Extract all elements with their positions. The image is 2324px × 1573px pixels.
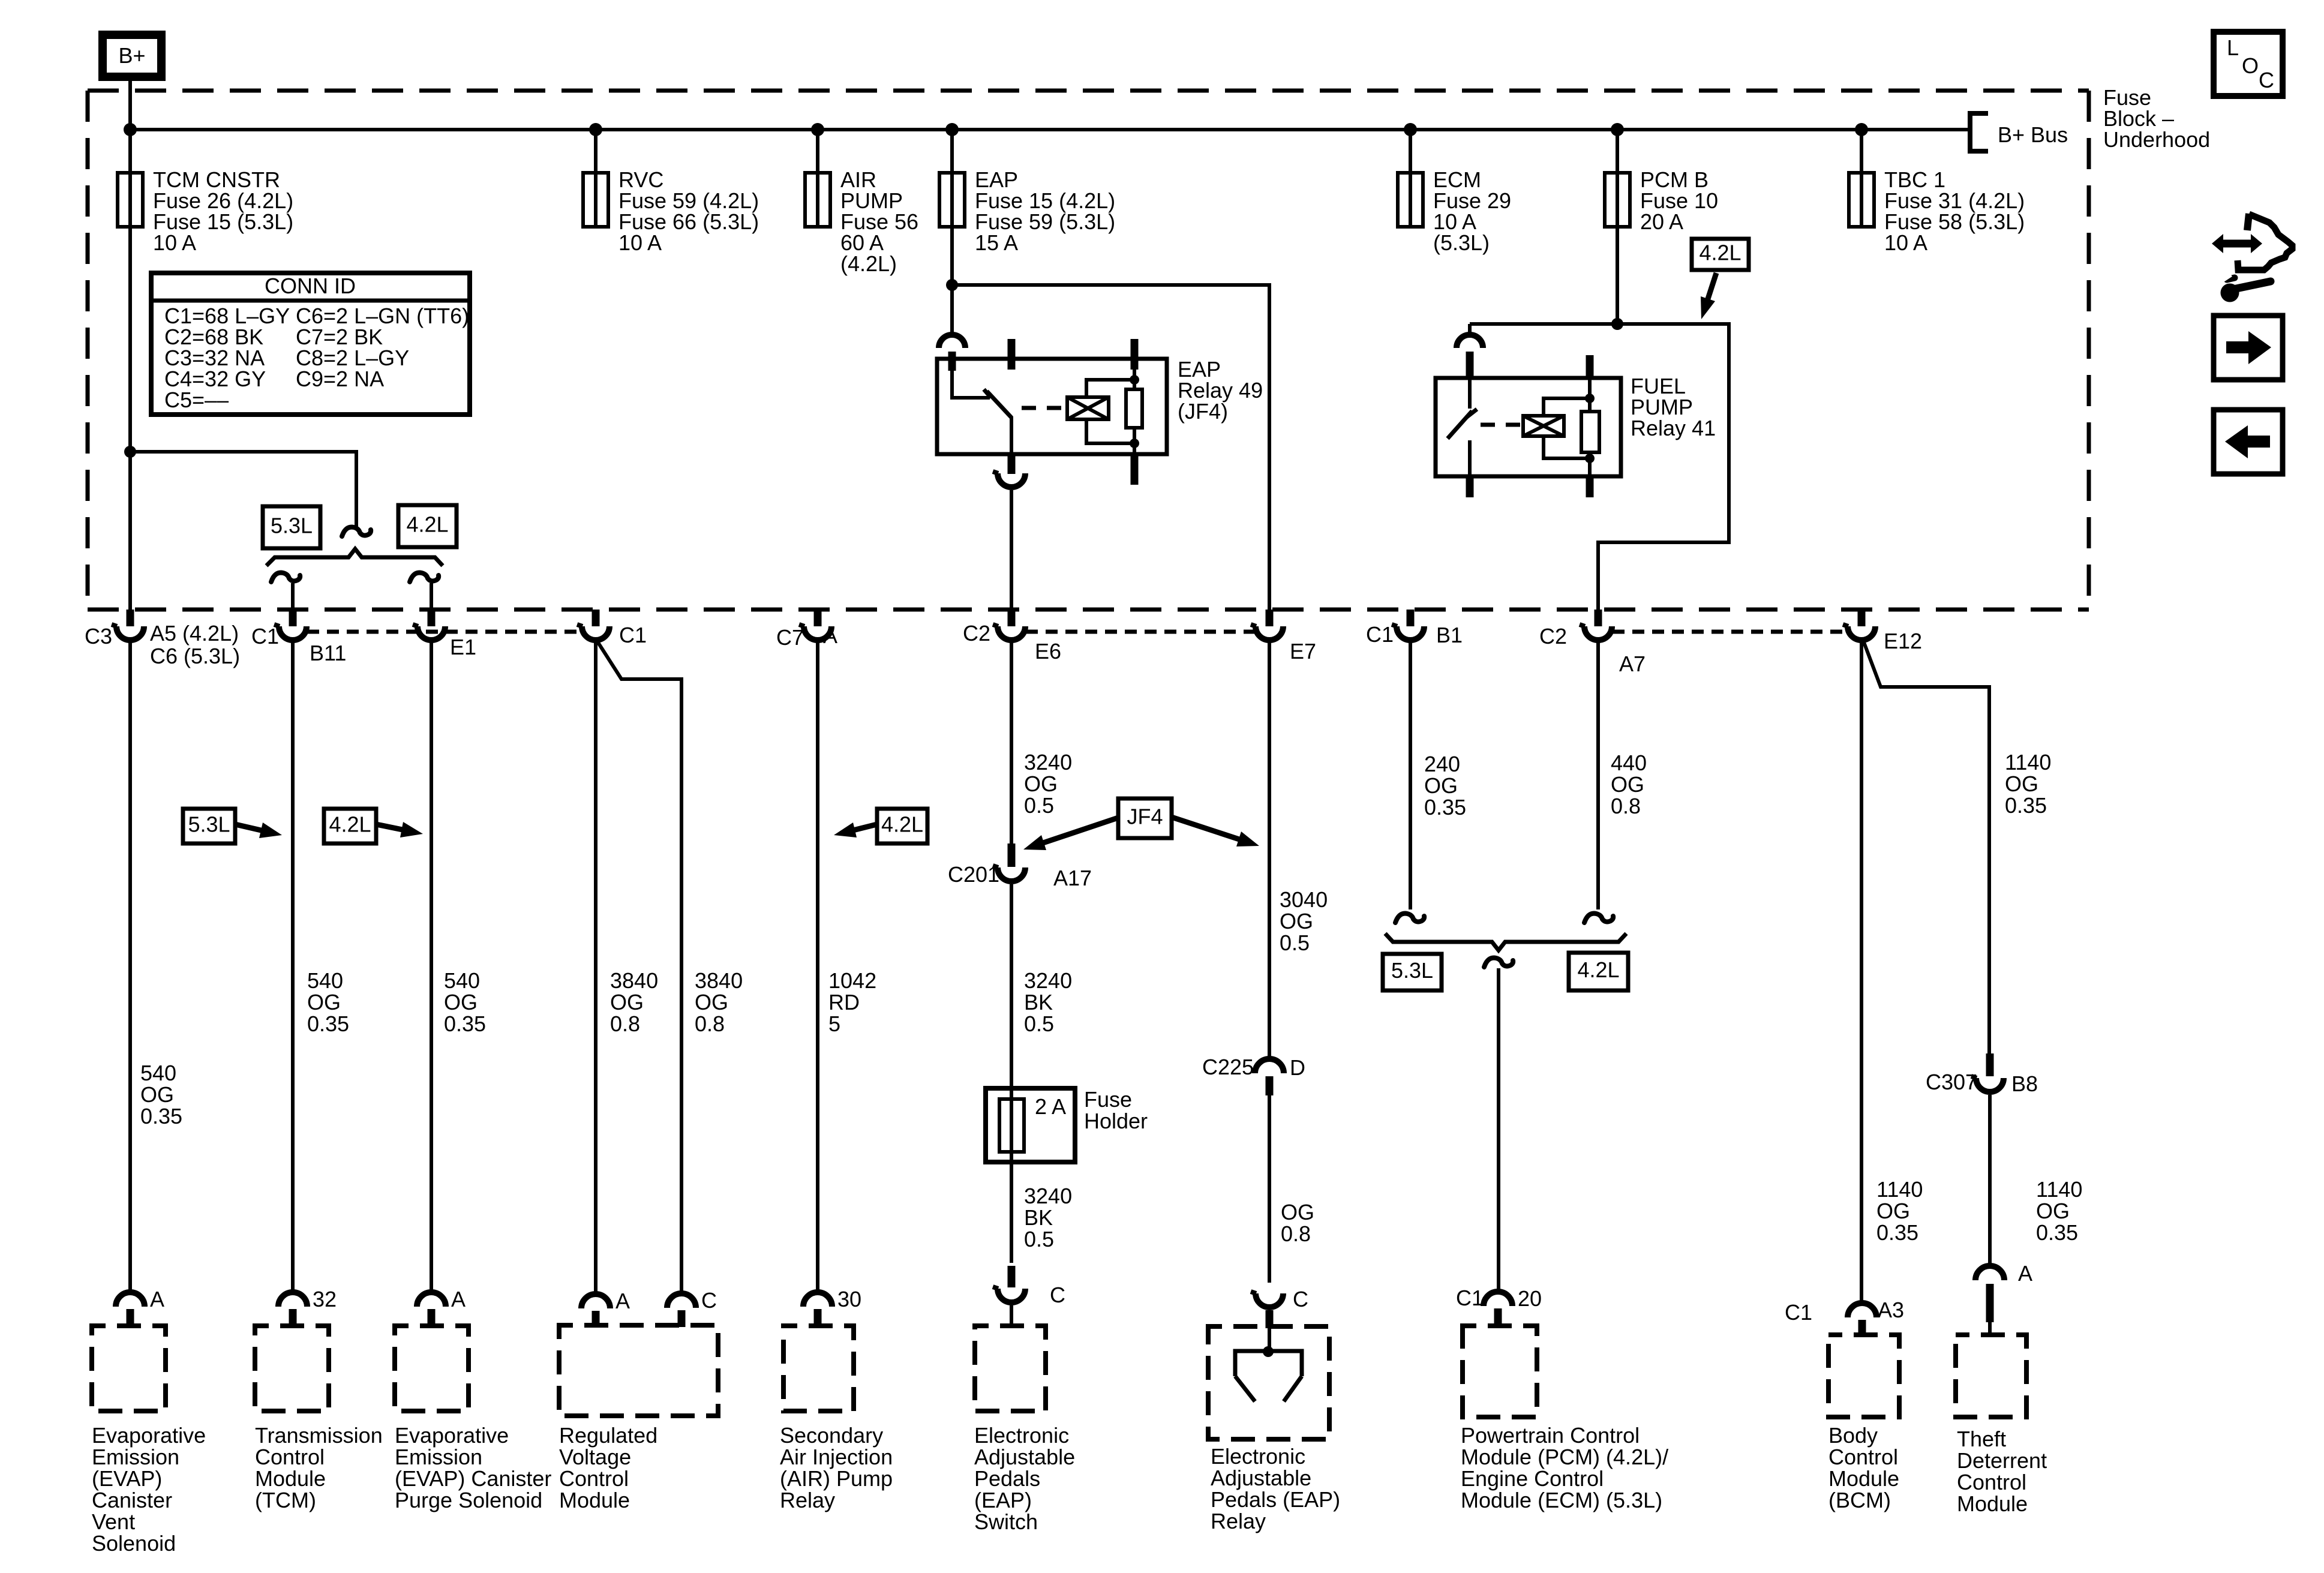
EAP relay coil wiring	[1086, 380, 1134, 443]
EAP relay pin 87 bar	[1008, 453, 1016, 474]
fuel relay coil wiring	[1544, 398, 1590, 458]
svg-text:Underhood: Underhood	[2103, 127, 2210, 152]
module BCM box	[1828, 1335, 1899, 1417]
svg-text:0.35: 0.35	[1424, 795, 1466, 819]
junction EAP coil bottom	[1130, 439, 1139, 448]
module theft deterrent box	[1956, 1335, 2026, 1417]
junction fuel coil top	[1585, 394, 1595, 403]
B+ Bus bar symbol	[1970, 113, 1988, 151]
dotted connector line segment 1	[307, 630, 581, 634]
connector pin A RVC	[581, 1294, 610, 1328]
fuel relay coil	[1523, 416, 1564, 436]
svg-text:0.5: 0.5	[1024, 1227, 1054, 1251]
label wire 240 OG 0.35	[1424, 752, 1466, 819]
svg-text:C: C	[1293, 1287, 1308, 1311]
svg-text:0.8: 0.8	[1611, 794, 1641, 818]
svg-text:B+ Bus: B+ Bus	[1998, 122, 2068, 147]
label wire 3040 OG 0.5	[1280, 887, 1328, 955]
wire TCM module drop	[291, 642, 295, 1292]
svg-text:A5 (4.2L): A5 (4.2L)	[150, 621, 239, 646]
svg-text:Transmission: Transmission	[255, 1423, 383, 1448]
svg-text:C307: C307	[1926, 1070, 1977, 1094]
svg-text:C: C	[1050, 1283, 1065, 1307]
svg-text:540: 540	[444, 968, 480, 993]
svg-text:3240: 3240	[1024, 1184, 1072, 1208]
connector pin 30 AIR relay	[803, 1292, 832, 1326]
svg-text:OG: OG	[1424, 773, 1458, 798]
fuel relay pin 85 bar	[1586, 476, 1594, 497]
module PCM/ECM box	[1463, 1326, 1537, 1417]
label box 4.2L arrow (AIR)	[834, 809, 927, 843]
svg-text:OG: OG	[1024, 772, 1058, 796]
label Electronic Adjustable Pedals (EAP) Switch	[974, 1423, 1075, 1534]
connector EAP relay output cup	[998, 473, 1025, 487]
fuse EAP Fuse 15/59	[939, 173, 965, 227]
icon arrow right box	[2214, 316, 2283, 380]
wire TCM branch L	[128, 227, 132, 610]
svg-text:A7: A7	[1619, 652, 1646, 676]
fuse ECM Fuse 29	[1398, 173, 1423, 227]
svg-text:Module: Module	[1828, 1466, 1899, 1491]
wire ECM Fuse 29 drop	[1409, 130, 1412, 173]
svg-text:(BCM): (BCM)	[1828, 1488, 1891, 1512]
svg-text:0.8: 0.8	[610, 1011, 640, 1036]
svg-text:0.35: 0.35	[140, 1104, 182, 1128]
svg-text:Emission: Emission	[395, 1445, 482, 1469]
connector pin 20 PCM	[1484, 1292, 1512, 1325]
wire C to EAP switch box	[1010, 1305, 1013, 1326]
brace PCM/ECM merge	[1385, 933, 1626, 950]
svg-text:A: A	[451, 1287, 466, 1311]
bus B+ horizontal	[130, 128, 1968, 131]
connector C1 B11	[279, 626, 307, 640]
connector C2 A7 tick	[1595, 610, 1602, 626]
svg-text:20: 20	[1518, 1286, 1542, 1311]
svg-text:C: C	[2259, 68, 2274, 92]
label wire 3840 OG 0.8 (A)	[610, 968, 658, 1036]
squiggle ECM wire end	[1395, 914, 1424, 923]
label box JF4 with arrows	[1023, 798, 1259, 850]
svg-text:C: C	[701, 1288, 717, 1313]
wire C225 to EAP relay	[1268, 1095, 1271, 1283]
svg-text:3240: 3240	[1024, 750, 1072, 775]
svg-text:A: A	[150, 1287, 164, 1311]
svg-text:4.2L: 4.2L	[1699, 241, 1741, 265]
wire TBC drop to BCM	[1860, 642, 1863, 1303]
connector C1 B1	[1397, 626, 1424, 640]
connector pin A EVAP purge	[417, 1292, 446, 1326]
svg-text:B+: B+	[118, 43, 145, 68]
svg-text:Control: Control	[255, 1445, 325, 1469]
svg-text:Body: Body	[1828, 1423, 1878, 1448]
wire EVAP vent drop	[128, 642, 132, 1292]
label Fuse Block - Underhood	[2103, 85, 2210, 152]
connector C1 B11 tick	[289, 610, 297, 626]
connector C307 tick	[1986, 1053, 1994, 1076]
label Theft Deterrent Control Module	[1957, 1427, 2047, 1516]
svg-text:A: A	[2018, 1261, 2032, 1286]
wire RVC pin A drop	[594, 642, 597, 1294]
label Transmission Control Module (TCM)	[255, 1423, 383, 1512]
svg-text:(EVAP): (EVAP)	[92, 1466, 162, 1491]
connector C3 tick	[127, 610, 134, 626]
svg-text:OG: OG	[444, 990, 478, 1014]
connector C1 B1 tick	[1407, 610, 1415, 626]
svg-text:Canister: Canister	[92, 1488, 172, 1512]
wire TCM CNSTR Fuse 26/15 drop	[128, 130, 132, 173]
svg-text:0.35: 0.35	[2036, 1220, 2078, 1245]
dotted connector line segment 2	[1026, 630, 1255, 634]
svg-text:Solenoid: Solenoid	[92, 1531, 176, 1556]
wire C into EAP relay box	[1266, 1310, 1274, 1328]
svg-text:30: 30	[837, 1287, 861, 1311]
module EAP switch box	[975, 1326, 1046, 1411]
label box 5.3L arrow	[183, 809, 282, 843]
label Regulated Voltage Control Module	[559, 1423, 657, 1512]
connector C cup (EAP switch)	[998, 1289, 1025, 1302]
svg-text:Electronic: Electronic	[974, 1423, 1069, 1448]
svg-text:C1: C1	[1785, 1300, 1812, 1325]
EAP relay pin 87a bar	[1008, 339, 1016, 370]
svg-text:0.5: 0.5	[1024, 1011, 1054, 1036]
svg-text:1140: 1140	[2036, 1177, 2082, 1202]
icon vehicle with wrench	[2212, 214, 2292, 302]
label box 5.3L upper	[263, 506, 320, 548]
svg-text:C6 (5.3L): C6 (5.3L)	[150, 644, 240, 668]
connector EAP relay pin30 dome	[939, 335, 965, 348]
EAP relay pin 85 bar	[1131, 453, 1139, 485]
svg-text:OG: OG	[140, 1082, 174, 1107]
wire B+ to bus	[128, 81, 132, 130]
fuse holder	[986, 1088, 1075, 1162]
svg-text:5.3L: 5.3L	[271, 514, 313, 538]
junction bus PCM	[1611, 123, 1624, 136]
label Fuse Holder	[1084, 1087, 1148, 1133]
svg-text:C2: C2	[963, 621, 990, 646]
wire PCM B fuse to junction	[1616, 227, 1619, 324]
connector C1 RVC tick	[592, 610, 600, 626]
wire A7 drop	[1596, 642, 1600, 909]
svg-text:Secondary: Secondary	[780, 1423, 883, 1448]
connector E7	[1256, 626, 1283, 640]
svg-text:4.2L: 4.2L	[406, 512, 448, 537]
EAP relay dashed link	[1022, 406, 1065, 410]
wire EAP to E7 branch	[952, 285, 1269, 610]
svg-text:(5.3L): (5.3L)	[1433, 230, 1490, 255]
label TCM CNSTR Fuse 26/15	[153, 167, 293, 255]
label wire 1140 OG 0.35 (theft lower)	[2036, 1177, 2082, 1245]
connector C2 A7	[1584, 626, 1612, 640]
svg-text:20 A: 20 A	[1640, 209, 1683, 234]
wire C201 to fuse holder	[1010, 884, 1013, 1099]
junction bus RVC	[589, 123, 602, 136]
wire E6 drop	[1010, 642, 1013, 843]
svg-text:Deterrent: Deterrent	[1957, 1448, 2047, 1473]
svg-text:3040: 3040	[1280, 887, 1328, 912]
connector E1 tick	[428, 610, 436, 626]
svg-text:0.8: 0.8	[1281, 1221, 1311, 1246]
squiggle A7 wire end	[1584, 914, 1613, 923]
EAP relay switch	[952, 371, 1011, 453]
connector E7 tick	[1266, 610, 1274, 626]
theft pin tick	[1986, 1284, 1994, 1322]
svg-text:Powertrain Control: Powertrain Control	[1461, 1423, 1640, 1448]
svg-text:C7: C7	[776, 625, 804, 650]
svg-text:E7: E7	[1290, 639, 1316, 664]
svg-text:10 A: 10 A	[618, 230, 662, 255]
connector pin A EVAP vent	[116, 1292, 145, 1326]
label Secondary Air Injection (AIR) Pump Relay	[780, 1423, 893, 1512]
svg-text:E12: E12	[1884, 629, 1922, 653]
svg-text:OG: OG	[307, 990, 341, 1014]
wire C307 to theft module	[1988, 1095, 1992, 1266]
svg-text:(AIR) Pump: (AIR) Pump	[780, 1466, 893, 1491]
wire B11 drop	[291, 583, 295, 610]
svg-text:OG: OG	[2005, 772, 2038, 796]
label wire 540 OG 0.35 (TCM)	[307, 968, 349, 1036]
svg-text:B1: B1	[1436, 623, 1463, 647]
label Electronic Adjustable Pedals (EAP) Relay	[1211, 1444, 1340, 1533]
svg-text:B8: B8	[2011, 1071, 2038, 1096]
connector E12 tick	[1858, 610, 1866, 626]
svg-text:440: 440	[1611, 751, 1647, 775]
svg-text:Adjustable: Adjustable	[1211, 1466, 1311, 1490]
svg-text:0.35: 0.35	[2005, 793, 2047, 818]
svg-text:Relay: Relay	[780, 1488, 835, 1512]
svg-text:0.5: 0.5	[1280, 930, 1310, 955]
svg-text:L: L	[2227, 35, 2239, 60]
connector fuel relay pin30 dome	[1457, 335, 1483, 348]
connector A dome (theft)	[1975, 1266, 2004, 1280]
junction bus AIR	[811, 123, 824, 136]
svg-text:JF4: JF4	[1127, 804, 1163, 829]
svg-text:RD: RD	[828, 990, 860, 1014]
svg-text:Engine Control: Engine Control	[1461, 1466, 1604, 1491]
connector C225 tick	[1266, 1076, 1274, 1095]
wire E1 drop	[430, 583, 433, 610]
splice squiggle TCM	[342, 527, 371, 536]
wire TBC 1 Fuse 31/58 drop	[1860, 130, 1863, 173]
svg-text:Fuse: Fuse	[1084, 1087, 1132, 1112]
svg-text:0.35: 0.35	[444, 1011, 486, 1036]
svg-text:5.3L: 5.3L	[1391, 958, 1433, 983]
svg-text:0.35: 0.35	[1876, 1220, 1918, 1245]
brace TCM engines	[266, 549, 443, 566]
svg-text:Control: Control	[559, 1466, 629, 1491]
label box 4.2L (PCM)	[1569, 953, 1628, 990]
EAP relay pin 86 bar	[1131, 339, 1139, 370]
junction fuel pump feed	[1611, 318, 1623, 330]
svg-text:BK: BK	[1024, 990, 1053, 1014]
fuel relay pin 87 bar	[1466, 476, 1474, 497]
label EAP Relay 49 (JF4)	[1178, 357, 1263, 424]
svg-text:Module: Module	[559, 1488, 630, 1512]
svg-text:O: O	[2242, 53, 2259, 78]
svg-text:OG: OG	[610, 990, 644, 1014]
wire fuel pump relay feed	[1470, 324, 1729, 610]
squiggle PCM merge hook	[1484, 958, 1513, 967]
svg-text:Theft: Theft	[1957, 1427, 2006, 1451]
svg-text:Module (ECM) (5.3L): Module (ECM) (5.3L)	[1461, 1488, 1662, 1512]
dotted connector line segment 3	[1613, 630, 1847, 634]
wire theft pin to box	[1988, 1322, 1992, 1335]
label EAP Fuse 15/59	[975, 167, 1115, 255]
connector C1 RVC	[582, 626, 609, 640]
svg-text:Emission: Emission	[92, 1445, 179, 1469]
svg-text:A17: A17	[1053, 866, 1092, 890]
label Evaporative Emission (EVAP) Canister Purge Solenoid	[395, 1423, 551, 1512]
label AIR PUMP Fuse 56	[840, 167, 918, 276]
connector C2 E6 tick	[1008, 610, 1016, 626]
junction EAP coil top	[1130, 375, 1139, 385]
label wire 1140 OG 0.35 (BCM)	[1876, 1177, 1923, 1245]
CONN ID table	[151, 273, 470, 415]
svg-text:540: 540	[140, 1061, 176, 1085]
wire fuse holder to C	[1010, 1152, 1013, 1263]
svg-text:C1: C1	[619, 623, 647, 647]
label wire 440 OG 0.8	[1611, 751, 1647, 818]
svg-text:C225: C225	[1202, 1055, 1254, 1079]
connector C201 tick	[1008, 843, 1016, 867]
svg-text:3840: 3840	[695, 968, 743, 993]
svg-text:4.2L: 4.2L	[329, 812, 371, 837]
connector C3	[116, 626, 144, 640]
label wire 3840 OG 0.8 (C)	[695, 968, 743, 1036]
fuse RVC Fuse 59/66	[583, 173, 608, 227]
svg-text:(EVAP) Canister: (EVAP) Canister	[395, 1466, 551, 1491]
svg-text:4.2L: 4.2L	[881, 812, 923, 837]
module RVC box	[559, 1325, 718, 1416]
svg-text:CONN ID: CONN ID	[265, 274, 356, 298]
wire RVC pin C bend	[597, 641, 681, 1293]
svg-text:C9=2 NA: C9=2 NA	[296, 367, 384, 391]
svg-text:Module: Module	[1957, 1491, 2028, 1516]
svg-text:(TCM): (TCM)	[255, 1488, 316, 1512]
label Body Control Module (BCM)	[1828, 1423, 1899, 1512]
svg-text:A3: A3	[1878, 1298, 1904, 1322]
module AIR pump relay box	[783, 1326, 854, 1411]
module EAP relay box	[1208, 1326, 1329, 1439]
svg-text:1042: 1042	[828, 968, 876, 993]
svg-text:Relay: Relay	[1211, 1509, 1266, 1533]
fuse TBC 1 Fuse 31/58	[1849, 173, 1874, 227]
label box 5.3L (ECM)	[1383, 954, 1442, 990]
label wire 1140 OG 0.35 (theft upper)	[2005, 750, 2051, 818]
relay EAP Relay 49 box	[937, 359, 1167, 454]
EAP relay resistor	[1126, 370, 1142, 453]
svg-text:OG: OG	[1876, 1199, 1910, 1223]
module EVAP purge solenoid box	[395, 1326, 469, 1411]
svg-text:3840: 3840	[610, 968, 658, 993]
connector C7 A tick	[814, 610, 822, 626]
connector C307	[1976, 1078, 2004, 1092]
svg-text:10 A: 10 A	[1884, 230, 1927, 255]
fuel relay resistor	[1581, 378, 1599, 476]
svg-text:(EAP): (EAP)	[974, 1488, 1032, 1512]
EAP relay pedal symbol	[1235, 1346, 1302, 1401]
wire EAP Fuse 15/59 drop	[950, 130, 954, 173]
svg-text:10 A: 10 A	[153, 230, 196, 255]
svg-text:1140: 1140	[2005, 750, 2051, 775]
svg-text:OG: OG	[1281, 1200, 1314, 1224]
svg-text:Voltage: Voltage	[559, 1445, 631, 1469]
junction bus ECM	[1404, 123, 1417, 136]
svg-text:Module: Module	[255, 1466, 326, 1491]
svg-text:C1: C1	[1456, 1286, 1484, 1310]
svg-text:0.35: 0.35	[307, 1011, 349, 1036]
svg-text:240: 240	[1424, 752, 1460, 776]
label FUEL PUMP Relay 41	[1631, 374, 1716, 440]
svg-text:C5=––: C5=––	[164, 388, 229, 412]
svg-text:Regulated: Regulated	[559, 1423, 657, 1448]
wire AIR drop	[816, 642, 819, 1292]
svg-text:A: A	[615, 1289, 630, 1313]
svg-text:OG: OG	[695, 990, 728, 1014]
svg-text:C2: C2	[1539, 624, 1567, 649]
svg-text:Purge Solenoid: Purge Solenoid	[395, 1488, 542, 1512]
svg-text:Module (PCM) (4.2L)/: Module (PCM) (4.2L)/	[1461, 1445, 1668, 1469]
label wire OG 0.8	[1281, 1200, 1314, 1246]
wire EAP relay out to E6	[1010, 490, 1013, 610]
connector E12	[1848, 626, 1875, 640]
svg-text:5.3L: 5.3L	[188, 812, 230, 837]
svg-text:Control: Control	[1828, 1445, 1898, 1469]
svg-text:OG: OG	[2036, 1199, 2070, 1223]
svg-text:Electronic: Electronic	[1211, 1444, 1305, 1469]
svg-text:B11: B11	[310, 641, 346, 665]
svg-text:(JF4): (JF4)	[1178, 399, 1228, 424]
svg-text:Evaporative: Evaporative	[395, 1423, 509, 1448]
wire AIR PUMP Fuse 56 drop	[816, 130, 819, 173]
label box 4.2L (PCM B) with arrow	[1692, 239, 1749, 319]
svg-text:3240: 3240	[1024, 968, 1072, 993]
connector E1	[418, 626, 445, 640]
junction bus EAP	[945, 123, 959, 136]
svg-text:(4.2L): (4.2L)	[840, 251, 897, 276]
wire EAP fuse to junction	[950, 227, 954, 285]
svg-text:Pedals: Pedals	[974, 1466, 1040, 1491]
module EVAP canister vent solenoid box	[92, 1326, 166, 1411]
svg-text:Relay 41: Relay 41	[1631, 416, 1716, 440]
junction TCM split	[124, 446, 136, 458]
label box 4.2L upper	[398, 505, 457, 547]
svg-text:Evaporative: Evaporative	[92, 1423, 206, 1448]
wire fuel relay drop	[1468, 324, 1472, 335]
label Powertrain Control Module (PCM) (4.2L)/ Engine Control Module (ECM) (5.3L)	[1461, 1423, 1668, 1512]
junction EAP split	[946, 279, 958, 291]
svg-text:BK: BK	[1024, 1205, 1053, 1230]
fuse AIR PUMP Fuse 56	[805, 173, 830, 227]
label wire 540 OG 0.35 (EVAP)	[140, 1061, 182, 1128]
svg-text:Adjustable: Adjustable	[974, 1445, 1075, 1469]
wire theft branch bend	[1863, 641, 1989, 1053]
EAP relay pin 30 bar	[948, 352, 956, 371]
svg-text:C3: C3	[85, 624, 112, 649]
svg-text:C201: C201	[948, 862, 999, 887]
label wire 3240 OG 0.5	[1024, 750, 1072, 818]
squiggle E1 hook	[410, 573, 439, 582]
svg-text:OG: OG	[1280, 909, 1313, 933]
svg-text:0.5: 0.5	[1024, 793, 1054, 818]
svg-text:D: D	[1290, 1055, 1305, 1080]
EAP relay coil	[1067, 397, 1109, 419]
label wire 1042 RD 5	[828, 968, 876, 1036]
wire EAP relay drop	[950, 285, 954, 335]
junction bus TCM	[124, 123, 137, 136]
relay FUEL PUMP Relay 41 box	[1436, 378, 1621, 476]
svg-text:Switch: Switch	[974, 1509, 1038, 1534]
connector pin C RVC	[667, 1293, 696, 1327]
